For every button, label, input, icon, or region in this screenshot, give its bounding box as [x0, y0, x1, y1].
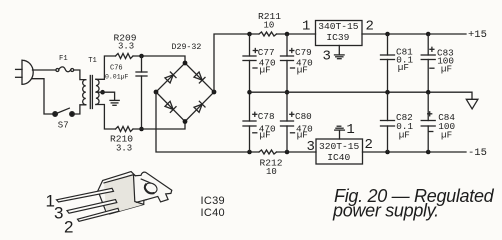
lead 3 [67, 200, 117, 214]
wire R211 to IC39 [277, 33, 316, 35]
svg-text:C80: C80 [295, 111, 312, 122]
label C80 plus [290, 112, 294, 116]
bridge rectifier D29-32 [156, 63, 214, 122]
svg-text:C78: C78 [258, 111, 275, 122]
wire fuse to transformer primary [74, 70, 86, 80]
TO-220 package drawing [57, 172, 172, 222]
node C76 top [139, 54, 144, 59]
svg-text:IC39: IC39 [201, 195, 225, 207]
wire secondary top to R209 [96, 56, 116, 79]
label C80 minus [291, 132, 295, 134]
capacitor C82 [381, 92, 395, 152]
resistor R210 [116, 127, 134, 132]
node mid rail C81 [385, 90, 390, 95]
svg-text:2: 2 [64, 218, 73, 237]
wire IC39 pin3 stub [338, 46, 340, 55]
svg-text:power supply.: power supply. [332, 201, 439, 221]
ground (transformer center tap) [110, 100, 119, 105]
wire secondary bottom to R210 [96, 105, 116, 130]
svg-text:3.3: 3.3 [116, 143, 132, 153]
svg-text:D29-32: D29-32 [172, 43, 202, 52]
label C78 plus [253, 112, 257, 116]
wire R212 to IC40 [277, 151, 317, 153]
svg-text:3: 3 [54, 204, 63, 223]
label C77 minus [253, 67, 257, 69]
wire IC40 pin1 stub [339, 130, 341, 139]
svg-text:T1: T1 [88, 57, 97, 65]
svg-text:340T-15: 340T-15 [318, 21, 359, 32]
svg-text:F1: F1 [59, 55, 68, 63]
fuse F1 [56, 67, 74, 72]
svg-text:0.01µF: 0.01µF [105, 73, 129, 80]
node positive rail C77 [247, 32, 252, 37]
capacitor C84 [421, 92, 435, 152]
svg-text:IC39: IC39 [326, 32, 349, 43]
svg-text:320T-15: 320T-15 [319, 141, 360, 152]
svg-text:2: 2 [365, 137, 373, 153]
wire plug bottom [33, 79, 54, 114]
package front face shading [104, 175, 144, 214]
svg-text:1: 1 [302, 19, 310, 35]
diode D31 [165, 101, 176, 112]
capacitor C78 [243, 92, 256, 152]
label C84 plus [428, 112, 432, 116]
svg-text:10: 10 [266, 167, 277, 177]
node bridge left [154, 90, 159, 95]
switch S7 [53, 108, 74, 116]
svg-text:+15: +15 [468, 29, 487, 41]
capacitor C79 [281, 34, 294, 92]
svg-text:-15: -15 [468, 147, 487, 159]
node mid rail C79 [285, 90, 290, 95]
svg-text:µF: µF [399, 129, 410, 140]
package silhouette [98, 172, 172, 214]
lead 2 [78, 208, 120, 221]
ground (output common) [466, 99, 478, 109]
wire switch to transformer primary [74, 105, 86, 114]
svg-text:3: 3 [323, 49, 331, 65]
svg-text:µF: µF [441, 64, 452, 75]
node -15 rail C82 [385, 150, 390, 155]
wire R209 to bridge top [133, 56, 185, 63]
resistor R211 [259, 32, 277, 36]
svg-text:C76: C76 [110, 65, 123, 73]
capacitor C80 [281, 92, 294, 152]
capacitor C76 [136, 56, 147, 129]
svg-text:µF: µF [260, 130, 271, 141]
wire plug top to fuse [33, 69, 56, 71]
wire IC40 output to -15 [363, 151, 467, 153]
resistor R212 [259, 150, 277, 154]
svg-text:3: 3 [307, 139, 315, 155]
node -15 rail C84 [426, 150, 431, 155]
resistor R209 [116, 54, 134, 59]
package front-top edge [104, 175, 135, 183]
label C83 plus [430, 47, 434, 51]
diode D32 [194, 101, 205, 112]
label C84 minus [429, 131, 433, 133]
node bridge top [183, 61, 188, 66]
svg-text:µF: µF [398, 62, 409, 73]
svg-text:2: 2 [366, 19, 374, 35]
node negative rail C78 [247, 150, 252, 155]
wire R210 to bridge bottom [133, 122, 185, 130]
wire mid rail [250, 92, 473, 99]
label C83 minus [430, 67, 434, 69]
label C79 plus [290, 49, 294, 53]
regulator IC39 [316, 21, 363, 46]
label C78 minus [253, 132, 257, 134]
svg-text:IC40: IC40 [327, 152, 350, 163]
node mid rail C83 [426, 90, 431, 95]
node C76 bottom [139, 127, 144, 132]
wire IC39 output to +15 [362, 33, 466, 35]
svg-text:3.3: 3.3 [118, 41, 134, 51]
node positive rail C79 [285, 32, 290, 37]
capacitor C77 [243, 34, 256, 92]
node +15 rail C83 [426, 32, 431, 37]
svg-text:µF: µF [441, 130, 452, 141]
svg-text:IC40: IC40 [201, 207, 225, 219]
node mid rail C77 [247, 90, 252, 95]
svg-text:10: 10 [264, 21, 275, 31]
label C77 plus [253, 49, 257, 53]
lead 1 [57, 188, 114, 202]
capacitor C81 [381, 34, 395, 92]
node negative rail C80 [285, 150, 290, 155]
package body-tab edge [134, 176, 144, 205]
diode D29 [165, 72, 176, 83]
ac plug P1 [16, 60, 34, 84]
mounting hole [143, 181, 158, 195]
ground (IC39 pin 3) [335, 55, 345, 59]
node bridge right [212, 90, 217, 95]
wire center tap to ground [96, 92, 115, 100]
node +15 rail C81 [385, 32, 390, 37]
regulator IC40 [316, 139, 363, 164]
transformer T1 [83, 76, 99, 109]
diode D30 [194, 72, 205, 83]
svg-text:µF: µF [297, 65, 308, 76]
wire bridge left to negative rail [156, 92, 259, 152]
svg-text:S7: S7 [58, 120, 69, 130]
node transformer center tap [100, 90, 105, 95]
node bridge bottom [183, 119, 188, 124]
wire bridge right to positive rail [214, 34, 259, 92]
package tab bottom edge [137, 200, 147, 203]
package tab fold line [141, 179, 150, 183]
capacitor C83 [421, 34, 435, 92]
svg-text:1: 1 [346, 122, 354, 138]
svg-text:µF: µF [260, 65, 271, 76]
label C79 minus [291, 67, 295, 69]
ground (IC40 pin 1) [335, 126, 345, 130]
